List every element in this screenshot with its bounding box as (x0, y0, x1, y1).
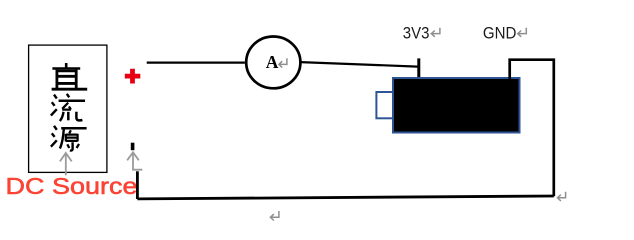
svg-text:DC Source: DC Source (6, 173, 138, 199)
DC source label char 源 (51, 126, 87, 151)
text cursor up-arrow inside box (60, 153, 72, 175)
wire from ammeter to 3V3 pin (301, 62, 418, 67)
DC source label char 直 (52, 63, 88, 89)
bottom return wire (137, 196, 553, 199)
positive terminal + (125, 69, 141, 84)
pilcrow after GND (518, 28, 527, 37)
pilcrow bottom right (557, 192, 565, 201)
svg-text:GND: GND (483, 23, 517, 42)
3V3 pin stub (417, 58, 420, 79)
GND wire: board top to right rail (510, 60, 554, 197)
text cursor up-arrow at negative terminal (127, 152, 142, 169)
DC source label char 流 (51, 94, 85, 121)
pilcrow after 3V3 (431, 28, 440, 37)
svg-text:A: A (266, 52, 279, 72)
ESP32 board (black module, blue outline) (393, 78, 520, 133)
pilcrow bottom centre (270, 211, 279, 221)
USB connector tab (376, 92, 393, 118)
negative terminal tick (131, 143, 135, 151)
ammeter A1 circle (246, 37, 300, 89)
DC source box (29, 45, 107, 172)
svg-text:3V3: 3V3 (403, 23, 430, 42)
wire from + terminal to ammeter (147, 61, 245, 63)
pilcrow after A (279, 58, 287, 67)
wire rise to negative terminal (136, 171, 139, 199)
